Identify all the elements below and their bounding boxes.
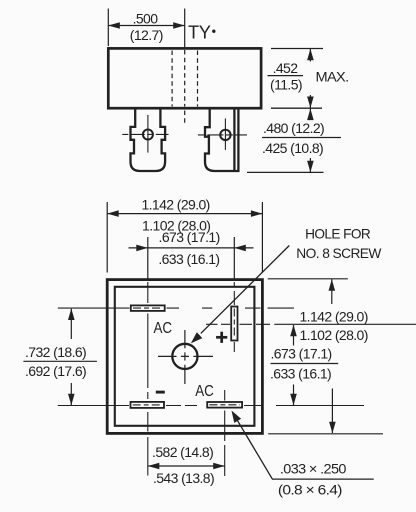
svg-text:(12.7): (12.7) [130, 27, 163, 43]
hidden line right tab edge [197, 51, 199, 107]
svg-text:AC: AC [195, 383, 214, 400]
package outline inner square [115, 287, 255, 426]
svg-text:.480 (12.2): .480 (12.2) [263, 120, 324, 136]
slot plus right [231, 307, 237, 341]
fraction line .673/.633 right [271, 363, 339, 365]
right tick bottom edge level [268, 433, 383, 435]
center line of body [184, 9, 186, 48]
horizontal centerline top slot row [58, 307, 294, 309]
slot AC top-left [131, 305, 165, 311]
dimension .500 (12.7) line [108, 25, 184, 27]
svg-text:.543 (13.8): .543 (13.8) [153, 470, 214, 486]
fraction line .480/.425 [262, 137, 341, 139]
svg-text:.633 (16.1): .633 (16.1) [158, 251, 219, 267]
right arrow down to bottom slot center [293, 385, 295, 406]
label plus [216, 336, 227, 339]
left pin horizontal centerline [122, 133, 168, 135]
leader to mounting hole [201, 246, 289, 334]
right arrow up to slot center [293, 325, 295, 346]
dimension 1.142/1.102 width line [107, 213, 262, 215]
mounting hole circle [172, 344, 197, 369]
right pin hole [220, 130, 230, 140]
svg-text:HOLE FOR: HOLE FOR [305, 226, 370, 242]
left terminal pin (side view) [131, 109, 166, 172]
svg-text:.673 (17.1): .673 (17.1) [271, 346, 332, 362]
right pin vertical centerline [224, 118, 226, 149]
leader to slot note [237, 420, 272, 479]
left dim arrow down [70, 383, 72, 405]
right pin horizontal centerline [198, 134, 247, 136]
svg-text:.582 (14.8): .582 (14.8) [152, 444, 213, 460]
left pin vertical centerline [147, 115, 149, 153]
left dim arrow up [70, 309, 72, 339]
arrow up to body bottom (pin length dim) [309, 109, 311, 119]
dimension .673/.633 line top [148, 247, 235, 249]
right arrow up to top edge [331, 279, 333, 304]
vertical centerline left slots column [147, 237, 149, 279]
package outline outer square [107, 280, 262, 434]
right pin face edge line [233, 109, 235, 172]
svg-text:.732 (18.6): .732 (18.6) [25, 344, 86, 360]
svg-text:AC: AC [154, 320, 173, 337]
svg-text:NO. 8 SCREW: NO. 8 SCREW [296, 245, 382, 261]
right arrow down to bottom edge [331, 389, 333, 434]
arrow down to body bottom [309, 95, 311, 108]
arrow up to body top [309, 49, 311, 62]
svg-text:1.142 (29.0): 1.142 (29.0) [300, 309, 368, 325]
svg-text:.452: .452 [273, 60, 299, 76]
fraction line .732/.692 [23, 360, 97, 362]
right tick top edge level [268, 278, 348, 280]
extension line left edge (width dim) [106, 202, 108, 273]
tick bottom of pins level [247, 171, 324, 173]
horizontal centerline bottom slot row [58, 405, 364, 407]
arrow down to pin bottom [309, 158, 311, 172]
svg-text:1.102 (28.0): 1.102 (28.0) [300, 327, 368, 343]
hidden line left tab edge [171, 51, 173, 107]
svg-text:.633 (16.1): .633 (16.1) [270, 366, 331, 382]
vertical centerline right slot [233, 237, 235, 279]
svg-text:TY: TY [188, 23, 211, 43]
tick bottom of body level [271, 107, 322, 109]
dimension .582/.543 line [148, 465, 225, 467]
right terminal pin (side view) [205, 109, 238, 172]
svg-text:.673 (17.1): .673 (17.1) [159, 229, 220, 245]
tick top of body level [271, 48, 323, 50]
package body (side view) [108, 48, 261, 108]
fraction line .452/(11.5) [268, 75, 304, 77]
hole horizontal centerline [158, 355, 213, 357]
svg-text:.500: .500 [133, 10, 159, 26]
slot AC bottom-center [207, 402, 242, 408]
hole vertical centerline [184, 330, 186, 384]
svg-text:(0.8 × 6.4): (0.8 × 6.4) [278, 481, 342, 497]
svg-text:MAX.: MAX. [316, 68, 349, 84]
svg-text:.425 (10.8): .425 (10.8) [262, 140, 323, 156]
vertical centerline bottom-center slot [224, 390, 226, 401]
svg-text:(11.5): (11.5) [270, 76, 302, 92]
extension line left for .500 dim [107, 9, 109, 47]
left pin hole [143, 130, 153, 140]
label minus [156, 391, 165, 394]
horizontal centerline right slot row [206, 323, 270, 325]
extension line right edge (width dim) [261, 202, 263, 273]
svg-text:.033 × .250: .033 × .250 [280, 460, 347, 476]
slot minus bottom-left [131, 402, 165, 408]
svg-text:1.142 (29.0): 1.142 (29.0) [141, 196, 209, 212]
note underline [272, 478, 374, 480]
svg-text:.692 (17.6): .692 (17.6) [25, 363, 86, 379]
